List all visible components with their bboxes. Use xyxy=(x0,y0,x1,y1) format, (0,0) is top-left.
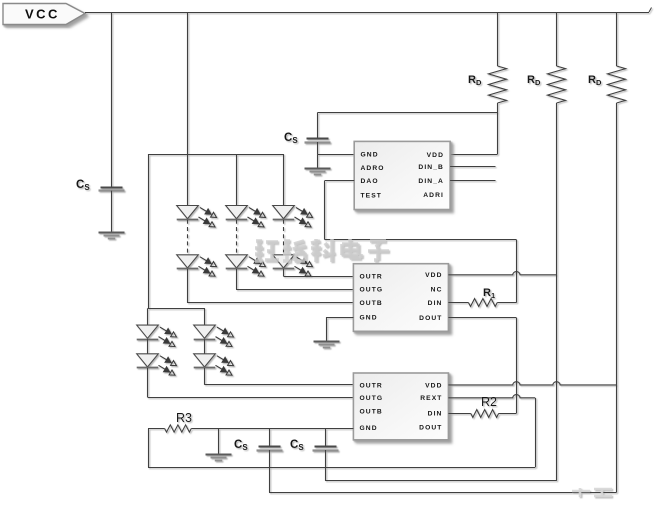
wire D9 to OUTG U3 xyxy=(147,368,149,398)
wire VCC to Cs left xyxy=(111,12,113,187)
wire U1 DIN_A stub xyxy=(450,180,495,182)
svg-text:DIN: DIN xyxy=(428,411,443,418)
svg-text:R2: R2 xyxy=(481,395,497,409)
wire REXT to R3 (bottom) xyxy=(148,467,535,469)
resistor RD2 xyxy=(548,66,566,103)
svg-text:CS: CS xyxy=(76,179,90,192)
svg-text:CS: CS xyxy=(234,439,248,452)
wire U3 DIN to R2 xyxy=(448,413,470,415)
wire Cs2 down xyxy=(325,450,327,481)
svg-text:VDD: VDD xyxy=(425,272,442,279)
wire D6 to OUTR U2 xyxy=(283,269,285,277)
op-amp U1 (controller IC) xyxy=(354,141,450,209)
svg-text:OUTR: OUTR xyxy=(360,274,383,281)
resistor RD3 xyxy=(608,66,626,103)
LED D8 xyxy=(194,325,234,346)
wire LED bus 2 xyxy=(148,308,205,310)
capacitor Cs2 (bottom) xyxy=(313,447,339,451)
watermark (center) xyxy=(255,239,389,262)
op-amp U3 (LED driver) xyxy=(353,373,448,440)
wire link D8-D10 xyxy=(204,339,206,354)
svg-text:VDD: VDD xyxy=(425,382,442,389)
ground (bottom) xyxy=(206,455,232,461)
resistor RD1 xyxy=(489,66,507,103)
svg-text:REXT: REXT xyxy=(420,395,442,402)
capacitor Cs (left bulk) xyxy=(99,188,125,191)
capacitor Cs (U1) xyxy=(305,139,331,143)
wire to Cs1 xyxy=(269,429,271,447)
svg-text:DIN: DIN xyxy=(428,300,443,307)
wire REXT riser down xyxy=(535,398,537,468)
wire Cs U1 to GND pin xyxy=(317,142,319,154)
svg-text:DOUT: DOUT xyxy=(419,424,442,431)
svg-text:CS: CS xyxy=(284,132,298,145)
svg-text:DAO: DAO xyxy=(361,178,379,185)
wire U2 DIN to R1 xyxy=(448,302,468,304)
svg-text:R3: R3 xyxy=(176,411,192,425)
svg-text:VCC: VCC xyxy=(25,6,60,21)
svg-text:DIN_A: DIN_A xyxy=(418,178,444,185)
svg-text:OUTG: OUTG xyxy=(360,286,384,293)
wire RD2 bottom to Cs2 xyxy=(325,480,557,482)
wire D4 to OUTB U2 xyxy=(187,269,189,303)
wire VCC to RD1 xyxy=(497,12,499,66)
wire to ground U1 xyxy=(317,154,319,168)
wire VCC rail xyxy=(85,12,649,14)
wire R2 to riser xyxy=(499,413,517,415)
wire R1 to riser xyxy=(497,302,516,304)
svg-text:NC: NC xyxy=(431,286,443,293)
wire U2 GND xyxy=(326,317,353,319)
wire link D7-D9 xyxy=(147,339,149,354)
wire RD2 long drop xyxy=(556,103,558,481)
op-amp U2 (LED driver) xyxy=(353,264,448,332)
wire LED bus 1 xyxy=(148,154,284,156)
wire bus2 drop col1 xyxy=(147,308,149,325)
wire bus1 drop col3 xyxy=(283,154,285,206)
capacitor Cs1 (bottom) xyxy=(257,447,283,451)
wire U1 DIN_B stub xyxy=(450,166,495,168)
svg-text:CS: CS xyxy=(290,439,304,452)
LED D6 xyxy=(273,255,313,276)
LED D4 xyxy=(177,255,217,276)
wire R3 to U3 GND xyxy=(191,428,353,430)
svg-text:ADRI: ADRI xyxy=(423,192,444,199)
wire VCC drop to LED bus 1 xyxy=(187,12,189,206)
wire U3 VDD to RD3 xyxy=(448,382,616,385)
resistor R1 xyxy=(468,299,497,307)
wire RD1 to VDD U1 xyxy=(497,103,499,154)
svg-text:TEST: TEST xyxy=(361,193,383,200)
svg-text:GND: GND xyxy=(361,152,379,159)
svg-text:GND: GND xyxy=(360,425,378,432)
LED D3 xyxy=(273,206,313,227)
LED D9 xyxy=(137,354,177,375)
svg-text:OUTB: OUTB xyxy=(360,300,383,307)
ground (U2) xyxy=(314,342,340,348)
svg-text:OUTG: OUTG xyxy=(360,395,384,402)
wire RD1 node to Cs U1 top xyxy=(318,112,498,114)
LED D2 xyxy=(226,206,266,227)
svg-text:R1: R1 xyxy=(483,287,495,300)
svg-text:GND: GND xyxy=(360,314,378,321)
LED D1 xyxy=(177,206,217,227)
svg-text:ADRO: ADRO xyxy=(361,165,385,172)
wire RD3 long drop xyxy=(616,103,618,492)
wire R3 left riser xyxy=(148,429,150,468)
wire dashed link D1-D4 xyxy=(187,220,189,255)
power flag VCC xyxy=(3,4,85,25)
svg-text:RD: RD xyxy=(527,74,541,87)
ground (left Cs) xyxy=(99,233,125,239)
svg-text:DIN_B: DIN_B xyxy=(418,164,444,171)
ground (U1) xyxy=(305,169,331,175)
LED D7 xyxy=(137,325,177,346)
wire U2 DOUT to R2 riser xyxy=(448,317,516,319)
resistor R3 xyxy=(165,425,192,432)
wire Cs1 down xyxy=(269,450,271,492)
wire D10 to OUTR U3 xyxy=(204,368,206,385)
svg-text:RD: RD xyxy=(468,74,482,87)
svg-text:OUTB: OUTB xyxy=(360,408,383,415)
wire dashed link D2-D5 xyxy=(236,220,238,255)
wire D5 to OUTG U2 xyxy=(236,269,238,289)
svg-text:OUTR: OUTR xyxy=(360,382,383,389)
wire VCC to RD2 xyxy=(556,12,558,66)
wire U3 REXT right xyxy=(448,395,535,398)
wire RD3 bottom to Cs1 xyxy=(269,492,617,494)
wire node to Cs U1 xyxy=(317,113,319,139)
LED D10 xyxy=(194,354,234,375)
wire R3 left stub xyxy=(148,428,165,430)
watermark (bottom right) xyxy=(572,488,612,497)
wire bus2 drop col2 xyxy=(204,308,206,325)
resistor R2 xyxy=(471,410,499,418)
wire Cs left to ground xyxy=(111,191,113,233)
wire U2 VDD to RD2 xyxy=(448,272,556,275)
wire to ground (bottom) xyxy=(218,429,220,455)
wire to Cs2 xyxy=(325,429,327,447)
svg-text:VDD: VDD xyxy=(427,152,444,159)
svg-text:RD: RD xyxy=(588,74,602,87)
wire dashed link D3-D6 xyxy=(283,220,285,255)
LED D5 xyxy=(226,255,266,276)
wire VCC to RD3 xyxy=(616,12,618,66)
wire U1 DAO to node A xyxy=(325,180,355,182)
svg-text:DOUT: DOUT xyxy=(419,315,442,322)
wire bus1 to bus2 (left feed) xyxy=(148,154,150,308)
wire bus1 drop col2 xyxy=(236,154,238,206)
